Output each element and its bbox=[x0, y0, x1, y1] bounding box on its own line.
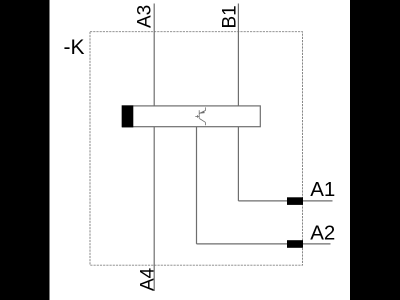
terminal A1 lead outside bbox=[303, 200, 333, 202]
terminal A2 lead outside bbox=[303, 243, 331, 245]
base lead bbox=[195, 115, 199, 117]
svg-text:A4: A4 bbox=[137, 267, 158, 291]
svg-text:A2: A2 bbox=[310, 221, 335, 244]
wire to A1 (horizontal) bbox=[238, 200, 303, 202]
emitter diagonal (arrow into bar) bbox=[199, 110, 205, 113]
dashed component boundary box bbox=[90, 32, 303, 266]
wire A3 (top lead) bbox=[153, 4, 155, 107]
transistor symbol inside coil bbox=[195, 107, 205, 125]
arrowhead bbox=[200, 111, 205, 114]
base tick bbox=[196, 115, 198, 118]
wire to A2 (vertical) bbox=[196, 127, 198, 244]
wire A4 (bottom lead) bbox=[153, 127, 155, 291]
wire to A2 (horizontal) bbox=[197, 243, 304, 245]
svg-text:A1: A1 bbox=[310, 178, 335, 201]
svg-text:-K: -K bbox=[64, 36, 85, 59]
emitter stub (top) bbox=[205, 107, 207, 110]
svg-text:B1: B1 bbox=[220, 5, 241, 28]
base bar bbox=[198, 110, 200, 118]
left letterbox bar bbox=[0, 0, 50, 300]
wire B1 (top lead) bbox=[237, 4, 239, 107]
collector stub (bottom) bbox=[204, 122, 206, 125]
collector diagonal (bottom) bbox=[199, 119, 205, 123]
right letterbox bar bbox=[350, 0, 400, 300]
terminal A2 (black pad) bbox=[287, 240, 303, 248]
terminal A1 (black pad) bbox=[287, 197, 303, 205]
svg-text:A3: A3 bbox=[135, 5, 156, 28]
relay coil K (box) bbox=[122, 106, 260, 127]
wire to A1 (vertical) bbox=[237, 127, 239, 201]
coil black fill segment bbox=[122, 105, 133, 127]
